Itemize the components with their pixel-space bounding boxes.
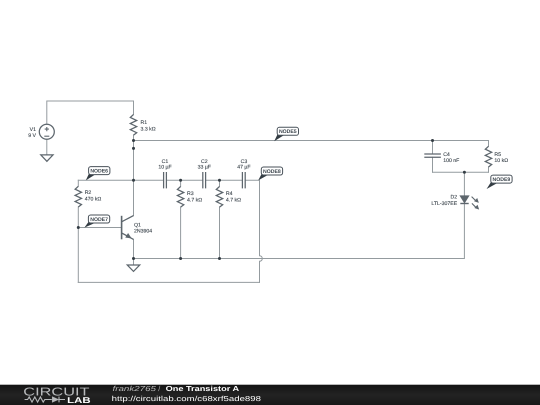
R3 bottom junction [179, 257, 182, 260]
node label NODE6 [86, 167, 110, 181]
svg-text:4.7 kΩ: 4.7 kΩ [226, 198, 241, 204]
resistor R4 [216, 187, 222, 208]
wire: R3 leads [180, 180, 182, 258]
wire: V1 top to R1 top [47, 101, 134, 124]
svg-text:470 kΩ: 470 kΩ [85, 197, 102, 203]
label V1 [28, 127, 36, 139]
label R1 [141, 120, 156, 132]
node label NODE8 [258, 167, 282, 180]
svg-text:NODE8: NODE8 [263, 169, 281, 175]
svg-text:10 kΩ: 10 kΩ [494, 158, 508, 164]
wire: NODE6 horizontal rail [78, 179, 259, 181]
R3 top junction [179, 179, 182, 182]
svg-text:4.7 kΩ: 4.7 kΩ [187, 198, 202, 204]
svg-text:C4: C4 [443, 152, 450, 158]
svg-text:http://circuitlab.com/c68xrf5a: http://circuitlab.com/c68xrf5ade898 [112, 394, 261, 403]
svg-text:100 nF: 100 nF [443, 158, 459, 164]
svg-text:R5: R5 [494, 152, 501, 158]
resistor R5 [485, 146, 491, 167]
svg-text:10 µF: 10 µF [158, 165, 171, 171]
capacitor C1 plates [164, 172, 167, 188]
svg-text:frank2765: frank2765 [113, 384, 158, 393]
V1 minus sign [44, 135, 49, 137]
voltage source V1 circle [39, 124, 54, 139]
wire: D2 anode lead [463, 172, 465, 196]
D2 top junction [463, 171, 466, 174]
resistor R3 [177, 187, 183, 208]
svg-text:R4: R4 [226, 191, 233, 197]
wire: R1 bottom / node5 vertical [133, 135, 135, 215]
resistor R2 [75, 186, 81, 207]
node label NODE9 [487, 175, 512, 189]
node label NODE7 [84, 215, 109, 228]
ground under Q1 emitter [127, 265, 139, 271]
svg-text:47 µF: 47 µF [237, 165, 250, 171]
svg-text:One Transistor A: One Transistor A [166, 384, 240, 393]
wire: emitter ground stub [133, 259, 135, 266]
node label NODE5 [274, 127, 298, 141]
junction dot below R1 [132, 147, 135, 150]
NODE7 base junction [77, 226, 80, 229]
svg-text:LTL-307EE: LTL-307EE [431, 201, 457, 207]
label C3 [237, 159, 250, 171]
label R2 [85, 190, 102, 202]
logo resistor-diode squiggle [25, 397, 65, 403]
svg-text:NODE6: NODE6 [90, 169, 108, 175]
label C1 [158, 159, 171, 171]
wire: node7-node8 bottom link [78, 281, 259, 283]
label R3 [187, 191, 202, 203]
wire: C4 branch verticals [432, 141, 434, 173]
svg-text:9 V: 9 V [28, 133, 36, 139]
svg-text:2N3904: 2N3904 [134, 229, 152, 235]
svg-text:NODE5: NODE5 [279, 129, 297, 135]
label C2 [198, 159, 211, 171]
wire: NODE5 horizontal rail [134, 140, 489, 142]
svg-text:R3: R3 [187, 191, 194, 197]
R4 top junction [218, 179, 221, 182]
svg-text:3.3 kΩ: 3.3 kΩ [141, 126, 156, 132]
wire: R2 vertical with node7 drop [77, 180, 79, 282]
wire: node8 vertical with hop over emitter rail [260, 180, 263, 282]
footer line 1 [112, 384, 261, 403]
resistor R1 [130, 115, 136, 136]
label R4 [226, 191, 241, 203]
node R1/NODE5 junction [132, 139, 135, 142]
wire: R5 branch [488, 141, 490, 173]
NODE6/collector junction [132, 179, 135, 182]
emitter rail junction [132, 257, 135, 260]
LED D2 [460, 196, 478, 209]
C4 top junction [431, 139, 434, 142]
label D2 [431, 194, 457, 207]
wire: R4 leads [219, 180, 221, 258]
capacitor C4 plates [424, 154, 441, 157]
ground under V1 [41, 155, 53, 161]
label R5 [494, 152, 508, 164]
svg-text:D2: D2 [451, 194, 458, 200]
svg-text:R1: R1 [141, 120, 148, 126]
V1 plus sign [45, 127, 49, 131]
transistor Q1 [122, 216, 134, 240]
svg-text:/: / [158, 384, 160, 393]
svg-text:LAB: LAB [67, 395, 90, 405]
label Q1 [134, 223, 152, 235]
wire: C4/R5 bottom rail [433, 171, 489, 173]
svg-text:NODE9: NODE9 [493, 177, 511, 183]
wire: Q1 base wire [78, 227, 121, 229]
R4 bottom junction [218, 257, 221, 260]
capacitor C2 plates [203, 172, 206, 188]
wire: V1 bottom to ground [46, 139, 48, 155]
svg-text:R2: R2 [85, 190, 92, 196]
svg-text:NODE7: NODE7 [90, 217, 108, 223]
label C4 [443, 152, 459, 164]
svg-text:33 µF: 33 µF [198, 165, 211, 171]
capacitor C3 plates [242, 172, 245, 188]
wire: emitter bottom rail [134, 203, 465, 258]
